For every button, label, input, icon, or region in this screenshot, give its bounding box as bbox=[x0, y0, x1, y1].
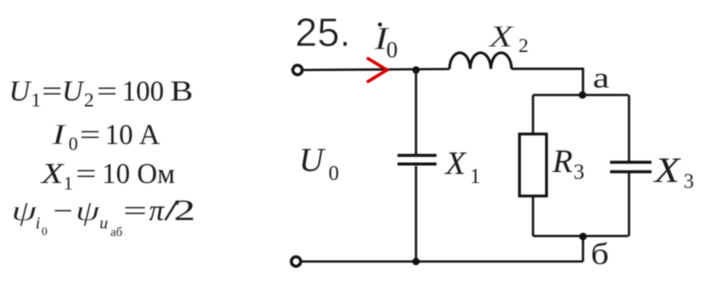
svg-text:В: В bbox=[170, 75, 193, 107]
svg-text:2: 2 bbox=[84, 90, 94, 112]
svg-text:0: 0 bbox=[42, 224, 48, 238]
svg-text:i: i bbox=[36, 214, 41, 233]
svg-text:0: 0 bbox=[386, 38, 398, 63]
svg-text:u: u bbox=[100, 214, 109, 233]
svg-text:3: 3 bbox=[574, 159, 585, 184]
svg-text:X: X bbox=[39, 157, 64, 189]
svg-text:10: 10 bbox=[105, 120, 133, 151]
svg-text:2: 2 bbox=[174, 194, 196, 227]
svg-text:=: = bbox=[42, 76, 63, 107]
svg-text:π: π bbox=[149, 194, 165, 227]
svg-text:=: = bbox=[76, 159, 97, 190]
svg-text:100: 100 bbox=[122, 77, 164, 108]
svg-text:аб: аб bbox=[111, 225, 123, 239]
svg-text:−: − bbox=[53, 195, 73, 226]
svg-text:=: = bbox=[80, 120, 101, 151]
svg-text:1: 1 bbox=[64, 174, 74, 195]
svg-text:А: А bbox=[139, 119, 160, 151]
svg-text:U: U bbox=[62, 76, 85, 108]
svg-text:=: = bbox=[123, 195, 147, 226]
svg-text:a: a bbox=[593, 62, 610, 95]
svg-text:1: 1 bbox=[470, 164, 481, 188]
svg-text:1: 1 bbox=[31, 90, 41, 112]
svg-text:10 Ом: 10 Ом bbox=[102, 159, 175, 190]
svg-text:25.: 25. bbox=[295, 11, 351, 55]
svg-text:ψ: ψ bbox=[75, 196, 100, 226]
svg-text:R: R bbox=[552, 144, 573, 180]
svg-text:ψ: ψ bbox=[11, 195, 38, 227]
svg-text:0: 0 bbox=[69, 134, 79, 155]
svg-text:U: U bbox=[9, 76, 32, 108]
svg-text:X: X bbox=[652, 150, 681, 190]
svg-text:3: 3 bbox=[684, 169, 695, 193]
svg-text:U: U bbox=[299, 142, 326, 179]
svg-text:0: 0 bbox=[329, 161, 340, 185]
svg-text:I: I bbox=[51, 119, 67, 151]
svg-text:б: б bbox=[591, 237, 609, 271]
svg-text:X: X bbox=[444, 146, 468, 182]
svg-text:X: X bbox=[487, 19, 515, 53]
svg-text:=: = bbox=[97, 76, 118, 107]
svg-text:2: 2 bbox=[519, 35, 529, 57]
